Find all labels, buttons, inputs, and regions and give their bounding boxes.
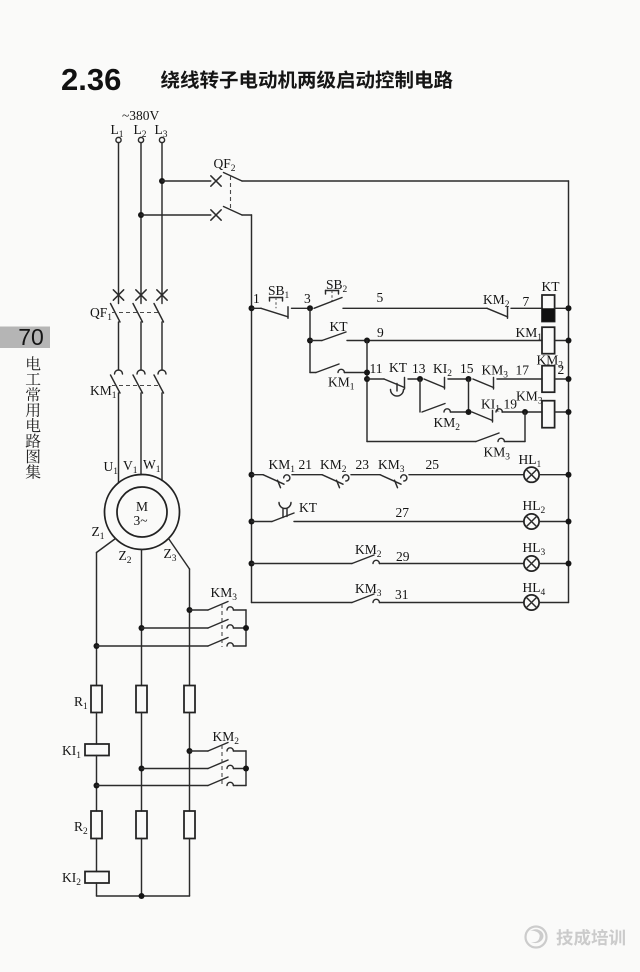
relay KI2 coil bbox=[85, 872, 109, 884]
wire KM3 row3 out bbox=[233, 645, 246, 647]
wire rowA d bbox=[409, 474, 524, 476]
contactor KM3 bypass linkage bbox=[221, 604, 223, 647]
wire KM3 row2 in bbox=[142, 627, 209, 629]
svg-text:2: 2 bbox=[558, 362, 565, 377]
svg-text:KT: KT bbox=[389, 360, 408, 375]
lamp HL2 bbox=[524, 514, 539, 529]
wire KM2 row2 out bbox=[233, 768, 246, 770]
breaker QF2 linkage bbox=[230, 176, 232, 209]
wire rowA b bbox=[292, 474, 322, 476]
contactor KM1 aux NO contact bbox=[316, 364, 339, 373]
node rotor star junction bbox=[139, 893, 145, 899]
node 3 bbox=[307, 305, 313, 311]
wire row3 a bbox=[367, 378, 384, 380]
relay KI2 NC contact bbox=[424, 379, 445, 388]
terminal L2 bbox=[138, 137, 143, 142]
wire QF2 pole1 out bbox=[242, 180, 569, 182]
breaker QF2 pole 1 bbox=[211, 176, 221, 186]
sidebar book title 电工常用电路图集 bbox=[27, 356, 40, 370]
svg-text:KT: KT bbox=[542, 279, 561, 294]
wire row1 d bbox=[511, 307, 542, 309]
wire rowA c bbox=[351, 474, 380, 476]
wire node15 drop bbox=[468, 379, 470, 412]
wire row3 d bbox=[497, 378, 542, 380]
wire KM2 row1 out bbox=[233, 750, 246, 752]
relay KT on-delay contact bbox=[384, 379, 405, 388]
wire row1 c bbox=[343, 307, 487, 309]
node 11 upper bbox=[364, 370, 370, 376]
wire KM3 common bar bbox=[245, 610, 247, 646]
contactor KM1 main pole 1 bbox=[115, 370, 123, 374]
wire L3 mid bbox=[161, 322, 163, 370]
contactor KM2 NC contact bbox=[487, 308, 508, 317]
resistor R2 phase1 bbox=[91, 811, 102, 839]
node row2 left bbox=[307, 338, 313, 344]
contactor KM2 aux NO contact bbox=[422, 404, 445, 413]
wire KM2 row3 out bbox=[233, 785, 246, 787]
lamp HL4 bbox=[524, 595, 539, 610]
lamp HL3 bbox=[524, 556, 539, 571]
node right bus row4 bbox=[566, 409, 572, 415]
wire R2 to KI2 bbox=[96, 839, 98, 872]
wire rotor Z2 lead bbox=[141, 550, 143, 686]
node rotor mid at KM2 bbox=[139, 766, 145, 772]
wire R2 mid down bbox=[141, 839, 143, 897]
pushbutton SB1 actuator bbox=[270, 297, 283, 299]
contactor KM2 coil bbox=[542, 366, 555, 393]
node rotor Z2 at KM3 bbox=[139, 625, 145, 631]
wire KM2 row2 in bbox=[142, 768, 209, 770]
wire KM2 row3 in bbox=[97, 785, 209, 787]
wire KI1 down bbox=[96, 756, 98, 812]
wire node9 drop bbox=[366, 341, 368, 442]
contactor KM3 lamp NO contact bbox=[380, 475, 401, 485]
wire rowB a bbox=[294, 521, 524, 523]
wire L2 mid bbox=[140, 322, 142, 370]
resistor R2 phase3 bbox=[184, 811, 195, 839]
node KM2 bar junction bbox=[243, 766, 249, 772]
wire row3 b bbox=[408, 378, 420, 380]
node rotor Z1 at KM3 bbox=[94, 643, 100, 649]
pushbutton SB2 actuator bbox=[326, 290, 339, 292]
wire rotor star bar bbox=[97, 895, 190, 897]
svg-text:3: 3 bbox=[304, 291, 311, 306]
wire control right bus bbox=[568, 181, 570, 603]
wire L1 mid bbox=[118, 322, 120, 370]
wire row4 c bbox=[555, 411, 569, 413]
resistor R1 phase1 bbox=[91, 686, 102, 713]
wire rowD b bbox=[379, 602, 524, 604]
wire V1 lead bbox=[140, 393, 142, 475]
resistor R1 phase2 bbox=[136, 686, 147, 713]
svg-text:21: 21 bbox=[299, 457, 313, 472]
svg-text:1: 1 bbox=[253, 291, 260, 306]
wire L1 drop bbox=[118, 143, 120, 304]
sidebar page number box bbox=[0, 327, 50, 349]
contactor KM1 main pole 3 bbox=[158, 370, 166, 374]
node rotor left at KM2 bbox=[94, 783, 100, 789]
relay KT delayed NC contact bbox=[279, 503, 291, 509]
node 13 bbox=[417, 376, 423, 382]
title 绕线转子电动机两级启动控制电路 bbox=[161, 70, 453, 89]
resistor R2 phase2 bbox=[136, 811, 147, 839]
terminal L3 bbox=[159, 137, 164, 142]
wire R2 right down bbox=[189, 839, 191, 897]
contactor KM3 bypass pole 1 bbox=[208, 602, 228, 611]
wire rowC b bbox=[379, 563, 524, 565]
contactor KM2 lamp NO contact bbox=[322, 475, 343, 485]
relay KT coil bbox=[542, 295, 555, 322]
svg-text:17: 17 bbox=[516, 363, 530, 378]
node right bus rowA bbox=[566, 472, 572, 478]
contactor KM3 aux NO contact bbox=[476, 433, 499, 442]
wire KM2 common bar bbox=[245, 751, 247, 786]
svg-text:29: 29 bbox=[396, 549, 410, 564]
node rotor Z3 at KM3 bbox=[187, 607, 193, 613]
wire row3a b bbox=[344, 372, 367, 374]
node KM3 bar junction bbox=[243, 625, 249, 631]
svg-text:9: 9 bbox=[377, 325, 384, 340]
svg-text:2.36: 2.36 bbox=[61, 62, 121, 97]
svg-text:15: 15 bbox=[460, 361, 474, 376]
wire rowD a bbox=[252, 602, 353, 604]
relay KI1 coil bbox=[85, 744, 109, 756]
node right bus rowC bbox=[566, 561, 572, 567]
resistor R1 phase3 bbox=[184, 686, 195, 713]
wire row2 a bbox=[310, 340, 322, 342]
relay KI1 NC contact bbox=[472, 412, 493, 421]
breaker QF1 linkage bbox=[112, 312, 159, 314]
wire row2 b bbox=[347, 340, 542, 342]
contactor KM3 NC contact bbox=[473, 379, 494, 388]
svg-text:11: 11 bbox=[370, 361, 383, 376]
wire rowD c bbox=[539, 602, 568, 604]
wire row3a a bbox=[310, 372, 316, 374]
contactor KM1 main pole 2 bbox=[137, 370, 145, 374]
wire rowA e bbox=[539, 474, 568, 476]
watermark text 技成培训 bbox=[556, 929, 624, 946]
wire row4 a bbox=[450, 411, 468, 413]
wire row4 b bbox=[502, 411, 542, 413]
breaker QF1 pole 2 bbox=[136, 290, 146, 300]
contactor KM2 bypass pole 3 bbox=[208, 777, 228, 786]
pushbutton SB1 NC contact bbox=[261, 308, 288, 317]
contactor KM3 lamp2 NO contact bbox=[352, 594, 374, 603]
node row4 mid bbox=[466, 409, 472, 415]
contactor KM3 bypass pole 3 bbox=[208, 638, 228, 647]
wire rowC a bbox=[252, 563, 353, 565]
wire U1 lead bbox=[118, 393, 120, 483]
svg-text:KT: KT bbox=[299, 500, 318, 515]
wire KM3 row1 in bbox=[190, 609, 209, 611]
wire R1 to KI1 bbox=[96, 713, 98, 745]
wire QF2 pole2 in bbox=[141, 214, 211, 216]
wire QF2 pole2 out bbox=[242, 214, 252, 216]
node 11 bbox=[364, 376, 370, 382]
wire rotor Z1 lead bbox=[97, 539, 116, 553]
wire R1 right down bbox=[189, 713, 191, 812]
contactor KM2 lamp2 NO contact bbox=[352, 555, 374, 564]
contactor KM2 bypass linkage bbox=[221, 745, 223, 787]
node rowC left bbox=[249, 561, 255, 567]
node L3 junction bbox=[159, 178, 165, 184]
node rotor right at KM2 bbox=[187, 748, 193, 754]
wire row3 e bbox=[555, 378, 569, 380]
node right bus rowB bbox=[566, 519, 572, 525]
wire KM3 row2 out bbox=[233, 627, 246, 629]
svg-text:7: 7 bbox=[523, 294, 530, 309]
motor M outer circle bbox=[105, 475, 180, 550]
wire KM3 row1 out bbox=[233, 609, 246, 611]
wire KM2 row1 in bbox=[190, 750, 209, 752]
node rowB left bbox=[249, 519, 255, 525]
wire row2 c bbox=[555, 340, 569, 342]
svg-text:25: 25 bbox=[426, 457, 440, 472]
contactor KM3 bypass pole 2 bbox=[208, 620, 228, 629]
svg-text:M: M bbox=[136, 499, 148, 514]
breaker QF1 pole 1 bbox=[113, 290, 123, 300]
contactor KM1 coil bbox=[542, 327, 555, 354]
pushbutton SB2 NO contact bbox=[314, 298, 342, 309]
wire node3 drop bbox=[309, 308, 311, 372]
node 9 bbox=[364, 338, 370, 344]
wire KI2 down bbox=[96, 883, 98, 896]
wire row5 b bbox=[504, 441, 525, 443]
wire R1 mid down bbox=[141, 713, 143, 812]
watermark logo bbox=[526, 927, 547, 948]
wire row1 b bbox=[292, 307, 311, 309]
breaker QF2 pole 2 bbox=[211, 210, 221, 220]
wire row1 e bbox=[555, 307, 569, 309]
svg-text:31: 31 bbox=[395, 587, 409, 602]
relay KT NO contact bbox=[322, 332, 346, 341]
svg-text:~380V: ~380V bbox=[122, 108, 160, 123]
terminal L1 bbox=[116, 137, 121, 142]
contactor KM1 linkage bbox=[112, 385, 160, 387]
node 19 bbox=[522, 409, 528, 415]
wire node13 drop bbox=[419, 379, 421, 412]
contactor KM2 bypass pole 2 bbox=[208, 760, 228, 769]
contactor KM2 bypass pole 1 bbox=[208, 743, 228, 752]
node 15 bbox=[466, 376, 472, 382]
svg-text:3~: 3~ bbox=[134, 513, 148, 528]
node right bus row2 bbox=[566, 338, 572, 344]
node 1 bbox=[249, 305, 255, 311]
wire L3 drop bbox=[161, 143, 163, 304]
contactor KM3 coil bbox=[542, 401, 555, 428]
node right bus row1 bbox=[566, 305, 572, 311]
wire L2 drop bbox=[140, 143, 142, 304]
contactor KM1 lamp NO contact bbox=[263, 475, 284, 485]
wire W1 lead bbox=[161, 393, 163, 481]
wire rowC c bbox=[539, 563, 568, 565]
wire control left bus bbox=[251, 215, 253, 603]
wire QF2 pole1 in bbox=[162, 180, 211, 182]
svg-text:13: 13 bbox=[412, 361, 426, 376]
wire rotor Z3 lead bbox=[169, 539, 190, 570]
node L2 junction bbox=[138, 212, 144, 218]
node rowA left bbox=[249, 472, 255, 478]
node right bus row3 bbox=[566, 376, 572, 382]
svg-text:70: 70 bbox=[18, 324, 44, 350]
wire row1 a bbox=[252, 307, 262, 309]
wire row5 a bbox=[367, 441, 476, 443]
svg-text:27: 27 bbox=[396, 505, 410, 520]
svg-text:23: 23 bbox=[356, 457, 370, 472]
lamp HL1 bbox=[524, 467, 539, 482]
wire row5 up bbox=[524, 412, 526, 442]
svg-text:5: 5 bbox=[377, 290, 384, 305]
wire rowA a bbox=[252, 474, 264, 476]
wire KM3 row3 in bbox=[97, 645, 209, 647]
wire rowB b bbox=[539, 521, 568, 523]
wire row3 c bbox=[448, 378, 469, 380]
motor M inner circle bbox=[117, 487, 167, 537]
breaker QF1 pole 3 bbox=[157, 290, 167, 300]
